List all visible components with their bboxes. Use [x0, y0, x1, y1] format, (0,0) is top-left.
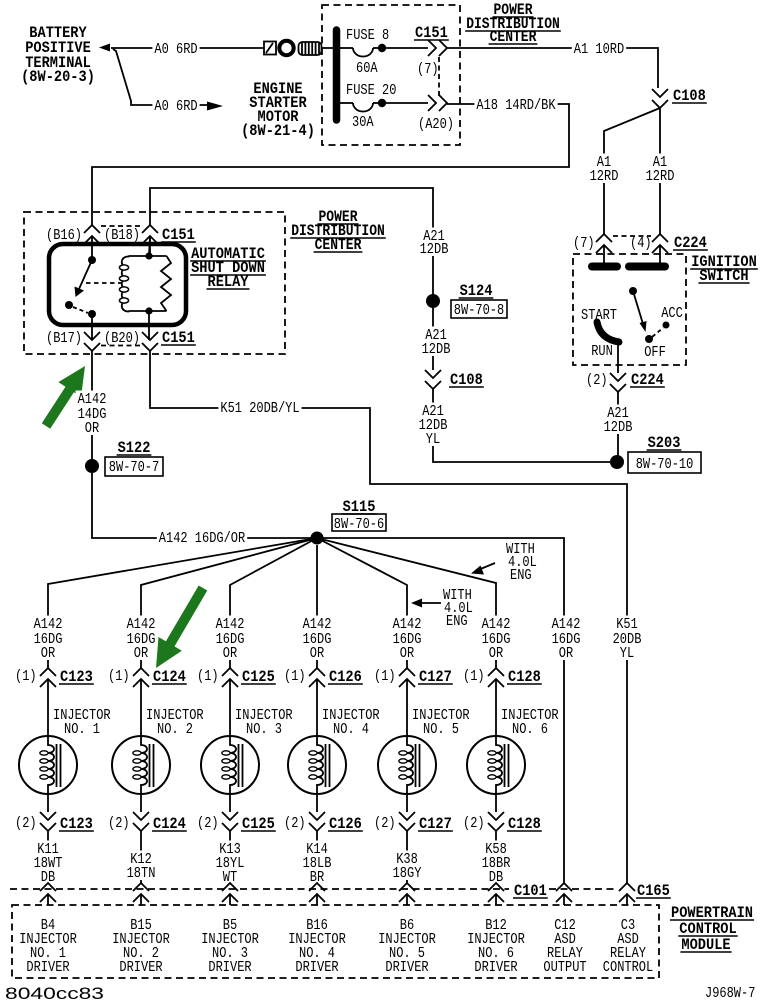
connector C101 chevron (injector 5) [399, 883, 415, 891]
svg-text:OR: OR [310, 645, 324, 662]
wire A1 12RD right branch [659, 108, 661, 234]
wire out of injector 2 [140, 794, 142, 812]
svg-text:(B16): (B16) [46, 227, 82, 244]
svg-text:A0 6RD: A0 6RD [154, 98, 197, 115]
wire A142 16DG/OR to S115 [92, 473, 311, 538]
wire out of injector 3 [229, 794, 231, 812]
svg-text:(1): (1) [197, 668, 219, 685]
svg-text:30A: 30A [352, 114, 374, 131]
svg-text:(B18): (B18) [104, 227, 140, 244]
wire A0 6RD branch to starter [113, 49, 207, 105]
injector 4 coil [288, 736, 346, 794]
label A142 16DG OR (injector 6) [480, 616, 513, 632]
wire into injector 1 [47, 679, 49, 736]
wire A21 12DB from relay B18 [150, 188, 433, 301]
relay coil [129, 236, 167, 340]
connector C224 pin 2 [610, 373, 626, 381]
fan wire to injector 5 [317, 538, 407, 668]
svg-text:DRIVER: DRIVER [474, 959, 517, 976]
label K12 18TN [128, 851, 154, 867]
bus bar [333, 30, 341, 120]
connector C224 pin 4 [652, 234, 668, 242]
injector 2 coil [112, 736, 170, 794]
connector C151 pin B18 [142, 225, 158, 233]
connector C151 dashed line (fuse box) [438, 57, 440, 96]
svg-text:(1): (1) [374, 668, 396, 685]
connector C151 pin B16 [84, 225, 100, 233]
svg-text:A1 10RD: A1 10RD [574, 41, 624, 58]
svg-text:YL: YL [426, 431, 440, 448]
connector C124 pin 2 [133, 812, 149, 820]
injector 1 coil [19, 736, 77, 794]
svg-text:(2): (2) [197, 815, 219, 832]
fan wire to injector 1 [48, 538, 317, 668]
connector C128 pin 1 [488, 668, 504, 676]
svg-text:(1): (1) [284, 668, 306, 685]
svg-text:A142 16DG/OR: A142 16DG/OR [159, 530, 245, 547]
wire out of injector 4 [316, 794, 318, 812]
svg-text:(1): (1) [463, 668, 485, 685]
svg-text:OUTPUT: OUTPUT [543, 959, 586, 976]
svg-text:8W-70-7: 8W-70-7 [109, 459, 159, 476]
svg-text:(7): (7) [417, 61, 439, 78]
connector C151 dashed line (relay bottom) [101, 345, 141, 347]
svg-text:DRIVER: DRIVER [119, 959, 162, 976]
connector C123 pin 1 [40, 668, 56, 676]
junction dot fuse 20 output [378, 99, 386, 107]
splice S122 [85, 459, 99, 473]
wire A1 12RD left branch [604, 108, 660, 234]
svg-text:RUN: RUN [591, 343, 613, 360]
connector C101 dashed line [10, 888, 509, 890]
relay resistor [161, 256, 171, 311]
svg-text:DRIVER: DRIVER [385, 959, 428, 976]
START-RUN thick arc [597, 322, 619, 342]
dashed arc to ACC [652, 328, 663, 337]
svg-text:8W-70-8: 8W-70-8 [454, 302, 504, 319]
connector C165 dashed line [549, 888, 616, 890]
injector 3 coil [201, 736, 259, 794]
wire out of injector 1 [47, 794, 49, 812]
wire A21 12DB YL to S203 [433, 389, 610, 462]
svg-text:(8W-21-4): (8W-21-4) [241, 122, 315, 140]
wire K14 to PCM [316, 831, 318, 883]
fan wire to injector 6 [317, 538, 496, 668]
wire K12 to PCM [140, 831, 142, 883]
svg-text:YL: YL [620, 645, 634, 662]
label K51 20DB/YL [218, 400, 301, 416]
fan wire to injector 3 [230, 538, 317, 668]
wire A18 14RD/BK to relay B16 [92, 104, 569, 225]
wire K38 to PCM [406, 831, 408, 883]
arrow to engine starter motor [207, 102, 223, 111]
ring terminal / fusible link symbol [264, 42, 276, 55]
splice S203 [610, 455, 624, 469]
svg-text:(A20): (A20) [418, 116, 454, 133]
green arrow at C124 [156, 586, 207, 669]
svg-text:A0 6RD: A0 6RD [154, 41, 197, 58]
svg-text:18TN: 18TN [127, 865, 156, 882]
wire RUN output [617, 342, 619, 373]
label K51 20DB YL [614, 616, 640, 632]
svg-text:OR: OR [489, 645, 503, 662]
label A142 16DG OR (injector 2) [125, 616, 158, 632]
wire K11 to PCM [47, 831, 49, 883]
svg-text:OR: OR [223, 645, 237, 662]
label A142 16DG OR (injector 5) [391, 616, 424, 632]
connector C224 pin 7 [596, 234, 612, 242]
svg-text:(2): (2) [586, 372, 608, 389]
connector C101 chevron (injector 4) [309, 883, 325, 891]
label A18 14RD/BK [474, 97, 557, 113]
svg-text:NO. 6: NO. 6 [512, 721, 548, 738]
svg-text:ENG: ENG [446, 613, 468, 630]
svg-text:(7): (7) [573, 235, 595, 252]
connector C101 chevron (injector 3) [222, 883, 238, 891]
wire K13 to PCM [229, 831, 231, 883]
svg-text:12DB: 12DB [420, 241, 449, 258]
svg-text:NO. 4: NO. 4 [333, 721, 369, 738]
connector C151 pin B20 [142, 332, 158, 340]
label A21 12DB YL [420, 403, 446, 419]
ignition OFF contact dot [645, 335, 653, 343]
wire out of injector 5 [406, 794, 408, 812]
automatic shut down relay box [49, 244, 186, 325]
ignition switch box (dashed) [573, 254, 686, 365]
svg-text:(2): (2) [374, 815, 396, 832]
connector C151 pin A20 [428, 95, 436, 111]
wire A0 6RD battery feed (top horizontal) [111, 47, 264, 49]
svg-text:18GY: 18GY [393, 865, 422, 882]
wire K58 to PCM [495, 831, 497, 883]
connector C101 chevron (injector 1) [40, 883, 56, 891]
svg-text:NO. 1: NO. 1 [64, 721, 100, 738]
connector C151 pin 7 [428, 40, 436, 56]
wire out of injector 6 [495, 794, 497, 812]
relay contact dot [65, 301, 73, 309]
connector C151 pin B17 [84, 332, 100, 340]
connector C127 pin 1 [399, 668, 415, 676]
wire fuse 8 to C151 [386, 47, 428, 49]
svg-text:(1): (1) [108, 668, 130, 685]
relay dashed link to contact [73, 307, 88, 313]
label A0 6RD (upper wire) [152, 41, 199, 57]
S124 reference box [451, 300, 507, 318]
svg-text:60A: 60A [356, 60, 378, 77]
svg-text:NO. 5: NO. 5 [423, 721, 459, 738]
svg-text:8040cc83: 8040cc83 [5, 985, 104, 1000]
svg-text:12DB: 12DB [422, 341, 451, 358]
S122 reference box [105, 457, 163, 476]
wire into injector 5 [406, 679, 408, 736]
svg-text:DRIVER: DRIVER [26, 959, 69, 976]
svg-text:12DB: 12DB [604, 419, 633, 436]
svg-text:J968W-7: J968W-7 [705, 985, 755, 1000]
relay switch pivot dot [88, 256, 96, 264]
wire A142 14DG OR [91, 351, 93, 466]
svg-text:OR: OR [85, 420, 99, 437]
ignition pivot dot [629, 287, 637, 295]
svg-text:DRIVER: DRIVER [208, 959, 251, 976]
label A1 10RD [572, 41, 626, 57]
label A21 12DB (mid) [423, 327, 449, 343]
wire into injector 4 [316, 679, 318, 736]
wire into injector 2 [140, 679, 142, 736]
label A142 16DG OR (injector 1) [32, 616, 65, 632]
svg-text:ENG: ENG [510, 567, 532, 584]
connector C127 pin 2 [399, 812, 415, 820]
green arrow at B17 [42, 366, 85, 429]
connector C151 dashed line (relay top) [101, 225, 141, 227]
fan wire to injector 4 [316, 545, 318, 668]
pointer to battery terminal [99, 44, 110, 52]
svg-text:FUSE 20: FUSE 20 [346, 82, 396, 99]
svg-text:8W-70-6: 8W-70-6 [334, 516, 384, 533]
svg-text:FUSE 8: FUSE 8 [346, 27, 389, 44]
connector C125 pin 2 [222, 812, 238, 820]
label A21 12DB (ignition) [605, 405, 631, 421]
label A142 16DG OR (injector 4) [301, 616, 334, 632]
wire fuse 20 to C151 [386, 102, 428, 104]
wire A21 12DB below S124 [432, 308, 434, 370]
fuse 20 [340, 102, 353, 104]
ignition contact bar left [592, 263, 617, 271]
svg-text:OFF: OFF [644, 344, 666, 361]
relay coil bottom dot [145, 307, 152, 314]
svg-text:A18 14RD/BK: A18 14RD/BK [476, 97, 555, 114]
S203 reference box [628, 452, 701, 473]
svg-text:OR: OR [134, 645, 148, 662]
wire into injector 3 [229, 679, 231, 736]
svg-text:(B20): (B20) [104, 330, 140, 347]
connector C125 pin 1 [222, 668, 238, 676]
relay coil top dot [145, 252, 152, 259]
wire into injector 6 [495, 679, 497, 736]
connector C165 chevron (C3) [619, 883, 635, 891]
svg-text:(1): (1) [15, 668, 37, 685]
fuse 8 [340, 47, 353, 49]
svg-text:NO. 2: NO. 2 [157, 721, 193, 738]
connector C124 pin 1 [133, 668, 149, 676]
connector C224 dashed line [613, 235, 651, 237]
ignition contact bar right [629, 263, 665, 271]
relay switch arm [79, 260, 92, 289]
label A142 14DG OR [76, 391, 109, 407]
injector 5 coil [378, 736, 436, 794]
connector C108 (bottom) [425, 370, 441, 378]
connector C128 pin 2 [488, 812, 504, 820]
svg-text:OR: OR [559, 645, 573, 662]
ignition ACC contact dot [663, 322, 670, 329]
svg-text:(2): (2) [108, 815, 130, 832]
svg-text:(4): (4) [630, 235, 652, 252]
svg-text:ACC: ACC [661, 305, 683, 322]
relay output dot [88, 310, 96, 318]
label A142 16DG OR (ASD output) [550, 616, 583, 632]
label A142 16DG OR (injector 3) [214, 616, 247, 632]
svg-text:8W-70-10: 8W-70-10 [636, 456, 694, 473]
splice S115 [311, 532, 324, 545]
power distribution center fuse box (dashed) [322, 5, 460, 145]
label K11 18WT DB [35, 841, 61, 857]
connector C108 (top) [652, 89, 668, 97]
ignition lever [633, 291, 643, 324]
relay mechanical dashed link [86, 282, 122, 284]
svg-text:(2): (2) [15, 815, 37, 832]
svg-text:(8W-20-3): (8W-20-3) [21, 68, 95, 86]
label K14 18LB BR [304, 841, 330, 857]
label A1 12RD (right) [651, 154, 669, 170]
junction dot fuse 8 output [378, 44, 386, 52]
label A0 6RD (lower wire) [152, 98, 199, 114]
label A21 12DB (upper) [421, 228, 447, 244]
label A1 12RD (left) [595, 154, 613, 170]
S115 reference box [332, 514, 386, 531]
connector C126 pin 1 [309, 668, 325, 676]
svg-text:12RD: 12RD [646, 168, 675, 185]
wire K51 20DB YL vertical [626, 538, 628, 883]
splice S124 [426, 294, 440, 308]
svg-text:OR: OR [41, 645, 55, 662]
connector C123 pin 2 [40, 812, 56, 820]
svg-text:(B17): (B17) [46, 330, 82, 347]
label K38 18GY [394, 851, 420, 867]
label A142 16DG/OR [157, 530, 247, 546]
svg-text:K51 20DB/YL: K51 20DB/YL [220, 400, 299, 417]
svg-text:NO. 3: NO. 3 [246, 721, 282, 738]
fan wire to ASD relay output branch [317, 538, 564, 883]
svg-text:OR: OR [400, 645, 414, 662]
svg-text:12RD: 12RD [590, 168, 619, 185]
label K13 18YL WT [217, 841, 243, 857]
connector C101 chevron (injector 2) [133, 883, 149, 891]
svg-text:DRIVER: DRIVER [295, 959, 338, 976]
label K58 18BR DB [483, 841, 509, 857]
connector C126 pin 2 [309, 812, 325, 820]
svg-text:(2): (2) [284, 815, 306, 832]
powertrain control module box (dashed) [12, 905, 659, 978]
fan wire to injector 2 [141, 538, 317, 668]
wire A1 10RD [447, 48, 658, 88]
connector C101 chevron (C12) [556, 883, 572, 891]
injector 6 coil [467, 736, 525, 794]
svg-text:(2): (2) [463, 815, 485, 832]
wire A21 12DB to S203 [617, 392, 619, 462]
svg-text:CONTROL: CONTROL [603, 959, 653, 976]
connector C101 chevron (injector 6) [488, 883, 504, 891]
wire K51 20DB/YL [150, 351, 627, 538]
power distribution center box (dashed) [24, 212, 285, 354]
